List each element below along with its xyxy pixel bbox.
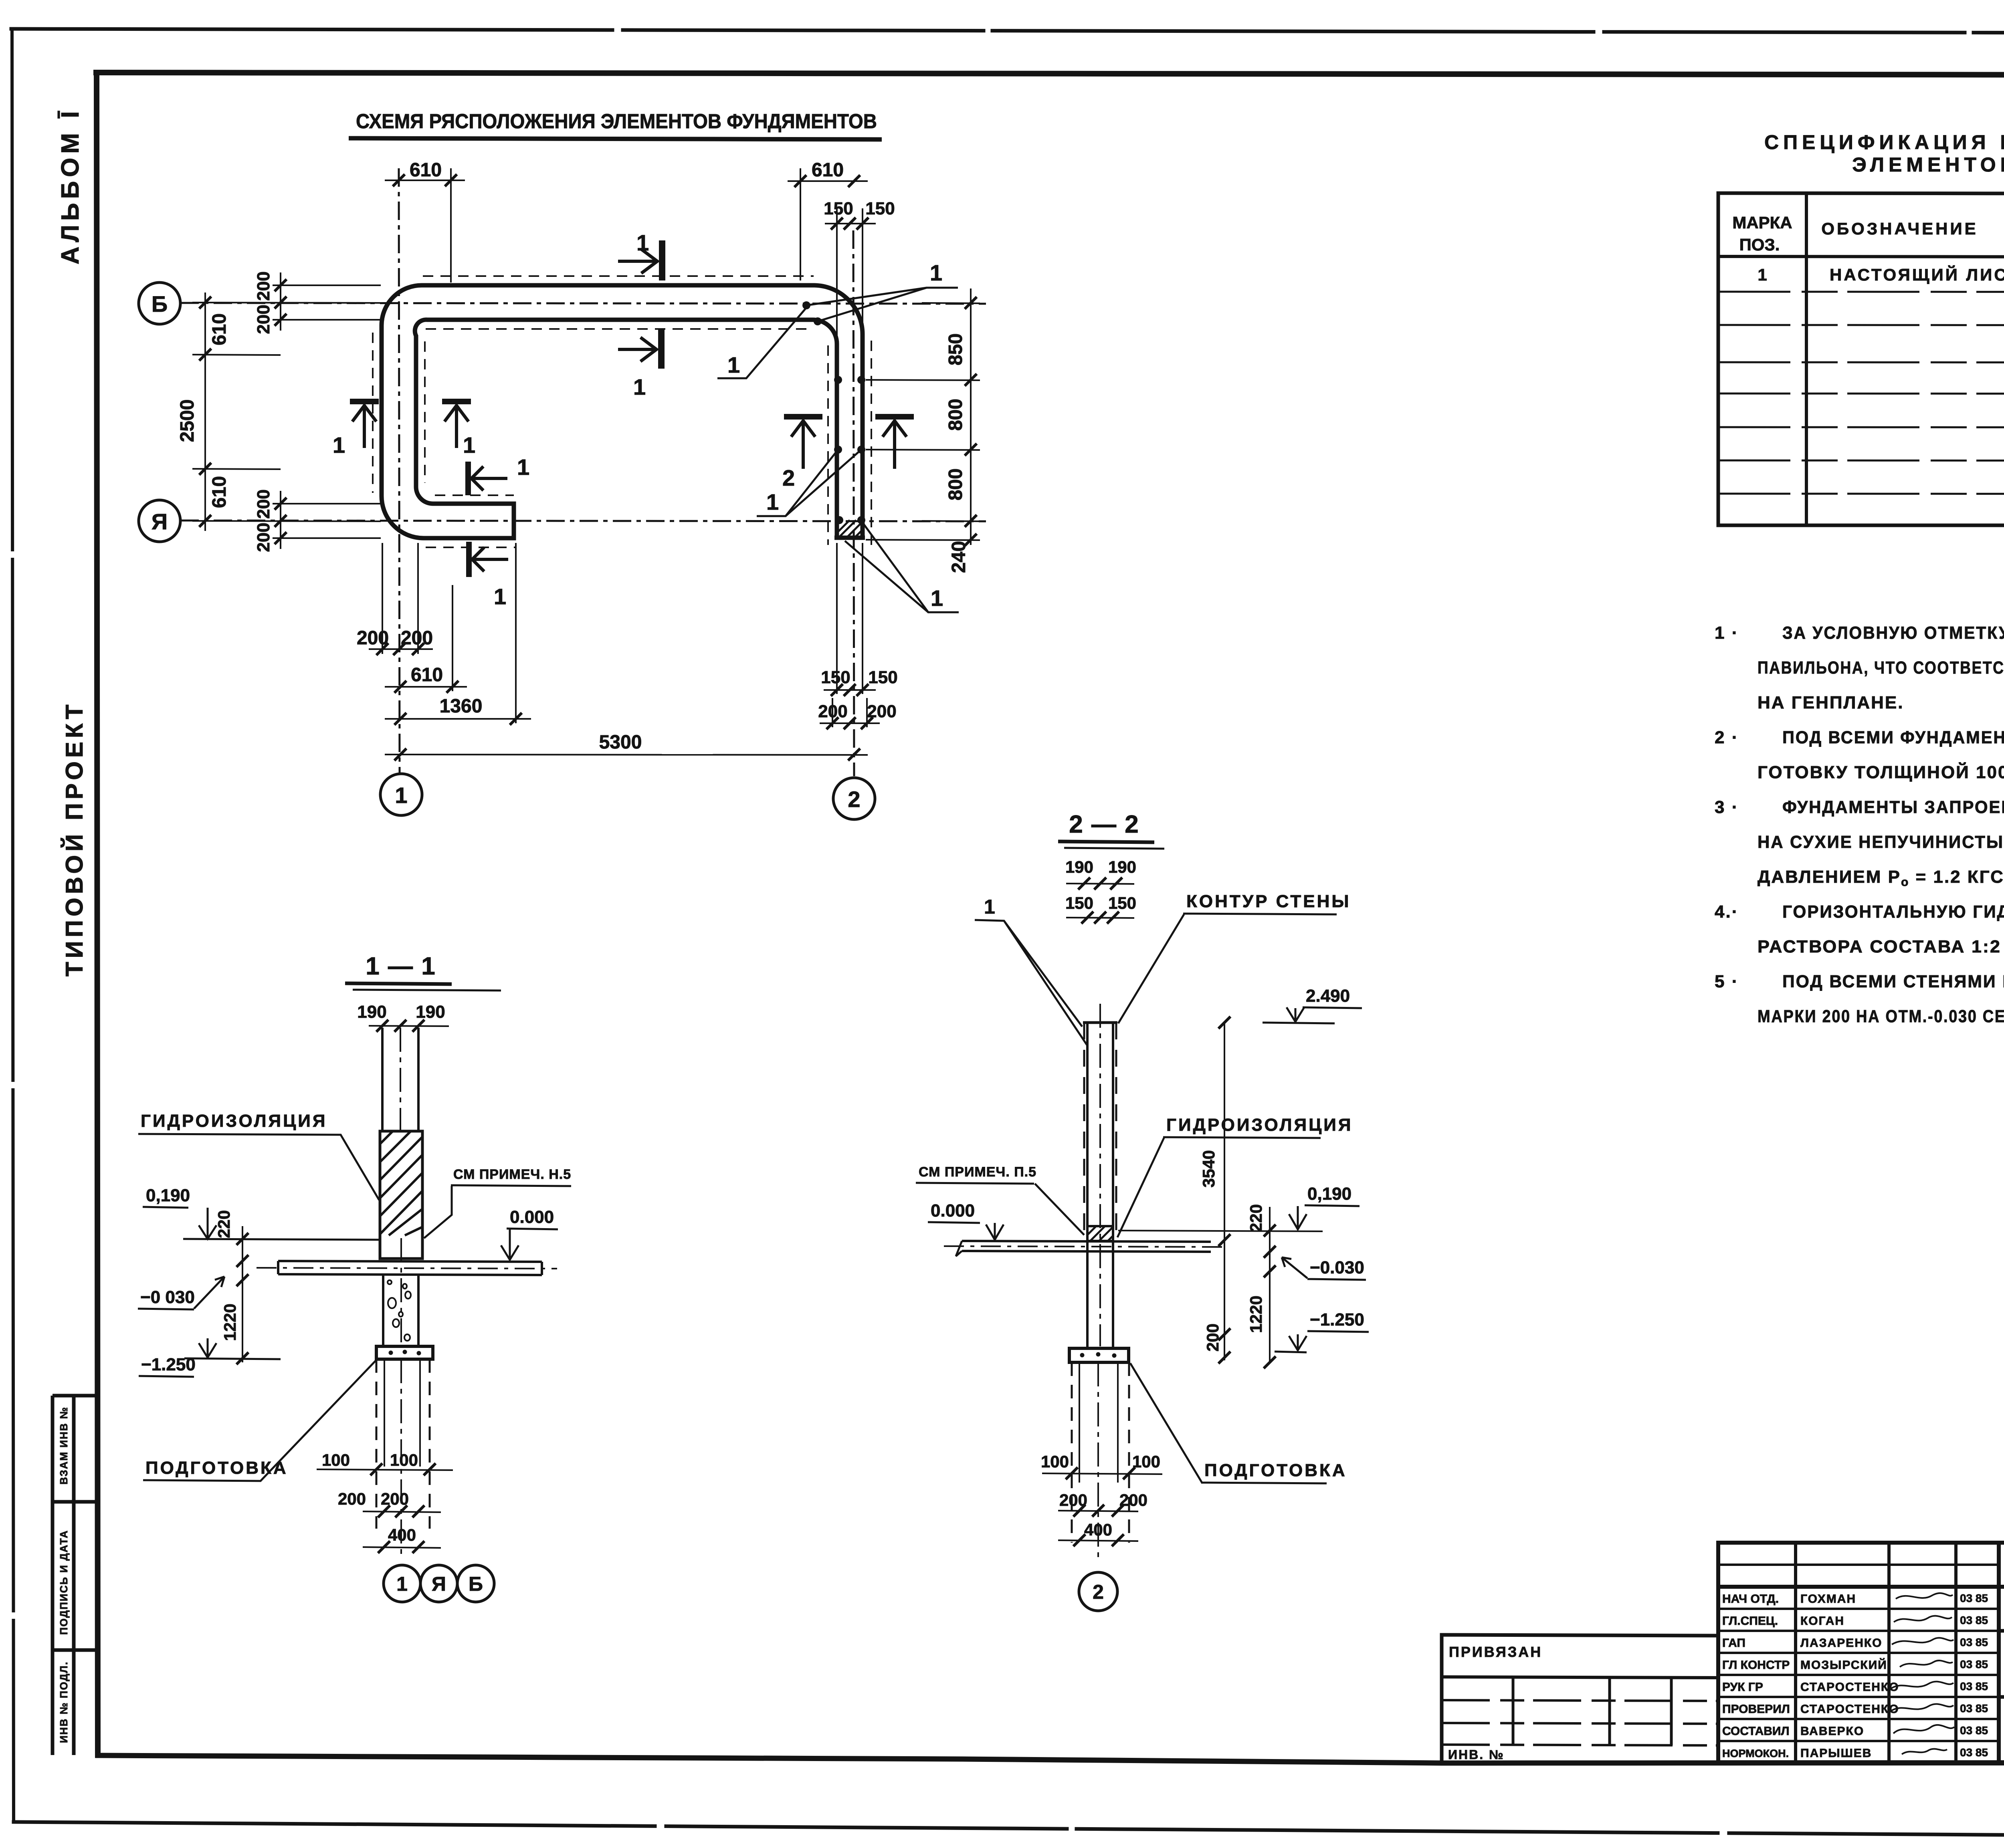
prep layer below footing sec2 <box>1072 1362 1129 1563</box>
svg-text:1: 1 <box>396 1573 408 1595</box>
svg-text:200: 200 <box>401 627 433 649</box>
svg-text:190: 190 <box>1065 857 1093 876</box>
svg-text:800: 800 <box>945 399 966 431</box>
svg-text:НАСТОЯЩИЙ ЛИСТ: НАСТОЯЩИЙ ЛИСТ <box>1830 265 2004 284</box>
svg-text:ПОД ВСЕМИ ФУНДАМЕНТЯМИ ВЫПОЛНИ: ПОД ВСЕМИ ФУНДАМЕНТЯМИ ВЫПОЛНИТЬ ЩЕБЕНОЧ… <box>1782 728 2004 747</box>
svg-text:2: 2 <box>782 465 795 490</box>
svg-text:1 — 1: 1 — 1 <box>366 952 436 980</box>
outer border top <box>11 29 2004 34</box>
svg-text:190: 190 <box>416 1002 445 1022</box>
footing slab <box>376 1346 433 1359</box>
svg-text:1: 1 <box>1758 265 1767 284</box>
svg-text:3540: 3540 <box>1199 1150 1218 1187</box>
svg-text:200: 200 <box>254 489 273 518</box>
svg-text:1: 1 <box>984 896 995 918</box>
svg-text:ГЛ КОНСТР: ГЛ КОНСТР <box>1722 1658 1790 1672</box>
section mark 1-1 top second <box>618 329 661 369</box>
svg-text:АЛЬБОМ Ī: АЛЬБОМ Ī <box>57 107 84 264</box>
dim 150x150 top-right <box>825 208 876 341</box>
svg-text:2 ·: 2 · <box>1715 728 1739 747</box>
svg-text:ГЛ.СПЕЦ.: ГЛ.СПЕЦ. <box>1722 1614 1778 1628</box>
svg-text:200: 200 <box>818 702 847 721</box>
dim 190/190 top <box>369 1020 449 1032</box>
right wall bottom cap <box>834 536 865 540</box>
svg-text:200: 200 <box>254 271 273 301</box>
svg-text:1: 1 <box>517 454 529 480</box>
svg-text:ПАРЫШЕВ: ПАРЫШЕВ <box>1800 1747 1872 1760</box>
axis line 1 <box>399 168 400 773</box>
bottom 200/200 under axis1 <box>369 543 433 654</box>
svg-text:610: 610 <box>812 159 844 181</box>
bottom 610 <box>385 585 467 691</box>
footing slab sec2 <box>1069 1348 1129 1362</box>
wall top cap <box>1083 1021 1117 1024</box>
left vertical chain 610/2500/610 <box>192 293 381 531</box>
svg-text:150: 150 <box>1108 894 1136 912</box>
svg-text:610: 610 <box>411 664 443 686</box>
axis circle 2 <box>833 778 875 819</box>
svg-text:03 85: 03 85 <box>1960 1702 1988 1715</box>
axis circle B <box>139 282 180 324</box>
plan dimensions <box>192 168 980 761</box>
svg-text:ИНВ. №: ИНВ. № <box>1448 1747 1505 1762</box>
svg-text:ЗА УСЛОВНУЮ ОТМЕТКУ 0,000 ПРИН: ЗА УСЛОВНУЮ ОТМЕТКУ 0,000 ПРИНЯТ УРОВЕНЬ… <box>1782 623 2004 643</box>
section mark 1-1 bottom wall b <box>469 542 508 577</box>
svg-text:ПОДПИСЬ И ДАТА: ПОДПИСЬ И ДАТА <box>58 1530 70 1635</box>
svg-text:ПОД ВСЕМИ СТЕНЯМИ ВЫПОЛНИТЬ ЦО: ПОД ВСЕМИ СТЕНЯМИ ВЫПОЛНИТЬ ЦОКОЛЬ ИЗ БЕ… <box>1782 972 2004 991</box>
main frame left <box>97 73 98 1755</box>
svg-text:СТАРОСТЕНКО: СТАРОСТЕНКО <box>1800 1681 1899 1694</box>
right chain 850/800/800/240 <box>866 288 980 545</box>
svg-text:1: 1 <box>930 260 942 285</box>
svg-text:СМ ПРИМЕЧ. П.5: СМ ПРИМЕЧ. П.5 <box>919 1164 1036 1180</box>
svg-text:200: 200 <box>867 702 896 721</box>
svg-text:03 85: 03 85 <box>1960 1724 1988 1737</box>
svg-text:800: 800 <box>945 468 966 500</box>
outer border left <box>12 29 14 1822</box>
leader to top-right rebar dots <box>806 288 958 321</box>
svg-text:1: 1 <box>463 432 475 458</box>
svg-text:200: 200 <box>1203 1323 1222 1352</box>
svg-text:03 85: 03 85 <box>1960 1746 1988 1759</box>
svg-text:КОГАН: КОГАН <box>1800 1614 1844 1628</box>
axis line Ya <box>180 521 986 521</box>
svg-text:ГОХМАН: ГОХМАН <box>1800 1592 1856 1606</box>
svg-text:ГИДРОИЗОЛЯЦИЯ: ГИДРОИЗОЛЯЦИЯ <box>141 1111 327 1131</box>
axis circles 1 Ya B <box>384 1565 494 1602</box>
svg-text:ВЗАМ ИНВ №: ВЗАМ ИНВ № <box>58 1406 70 1485</box>
svg-text:03 85: 03 85 <box>1960 1614 1988 1626</box>
svg-text:2: 2 <box>848 787 860 812</box>
svg-text:100: 100 <box>390 1451 418 1469</box>
svg-text:ГИДРОИЗОЛЯЦИЯ: ГИДРОИЗОЛЯЦИЯ <box>1166 1115 1353 1135</box>
svg-text:−1.250: −1.250 <box>1310 1310 1364 1330</box>
svg-text:1: 1 <box>395 783 407 808</box>
waterproofing small hatch at floor <box>1087 1226 1113 1241</box>
svg-text:150: 150 <box>824 199 853 218</box>
svg-text:200: 200 <box>254 523 273 552</box>
svg-text:200: 200 <box>381 1489 409 1508</box>
svg-text:СТАРОСТЕНКО: СТАРОСТЕНКО <box>1800 1703 1899 1716</box>
svg-text:ПАВИЛЬОНА, ЧТО СООТВЕТСТВУЕТ А: ПАВИЛЬОНА, ЧТО СООТВЕТСТВУЕТ АБСОЛЮТНОЙ … <box>1758 657 2004 678</box>
section mark 1-1 left wall a <box>350 401 379 448</box>
svg-text:03 85: 03 85 <box>1960 1658 1988 1670</box>
svg-text:СХЕМЯ РЯСПОЛОЖЕНИЯ ЭЛЕМЕНТОВ Ф: СХЕМЯ РЯСПОЛОЖЕНИЯ ЭЛЕМЕНТОВ ФУНДЯМЕНТОВ <box>356 110 877 133</box>
outer border bottom <box>14 1822 2004 1838</box>
signature rows names <box>1800 1592 1899 1760</box>
svg-text:СМ ПРИМЕЧ. Н.5: СМ ПРИМЕЧ. Н.5 <box>453 1167 571 1182</box>
svg-text:ПРИВЯЗАН: ПРИВЯЗАН <box>1449 1644 1542 1660</box>
floor slab <box>257 1261 557 1275</box>
svg-text:1: 1 <box>931 585 943 611</box>
svg-text:400: 400 <box>1084 1520 1112 1539</box>
axis circle 2 below <box>1079 1572 1117 1611</box>
svg-text:РАСТВОРА СОСТАВА 1:2 ТОЛЩИНОЙ: РАСТВОРА СОСТАВА 1:2 ТОЛЩИНОЙ 30 ММ. <box>1758 936 2004 956</box>
bottom 1360 <box>385 543 531 723</box>
waterproofing hatched block <box>380 1131 422 1259</box>
svg-text:190: 190 <box>357 1002 386 1022</box>
svg-text:5300: 5300 <box>599 732 642 753</box>
right wall hatched base <box>837 520 863 538</box>
bottom right 200/200 <box>820 698 880 727</box>
axis circle 1 <box>380 774 422 815</box>
svg-text:0,190: 0,190 <box>146 1186 190 1205</box>
svg-text:ГАП: ГАП <box>1722 1636 1745 1650</box>
svg-text:ИНВ № ПОДЛ.: ИНВ № ПОДЛ. <box>58 1661 70 1743</box>
svg-text:ФУНДАМЕНТЫ ЗАПРОЕКТИРОВАНЫ ИЗ: ФУНДАМЕНТЫ ЗАПРОЕКТИРОВАНЫ ИЗ РАСЧЕТА ОП… <box>1782 797 2004 817</box>
svg-text:5 ·: 5 · <box>1715 972 1739 991</box>
svg-text:0,190: 0,190 <box>1307 1184 1351 1204</box>
prep layer below footing <box>376 1359 430 1555</box>
svg-text:0.000: 0.000 <box>931 1201 975 1221</box>
svg-text:МОЗЫРСКИЙ: МОЗЫРСКИЙ <box>1800 1658 1887 1672</box>
spec table grid <box>1718 193 2004 525</box>
svg-text:РУК ГР: РУК ГР <box>1722 1681 1763 1694</box>
svg-text:ГОТОВКУ ТОЛЩИНОЙ 100 ММ.: ГОТОВКУ ТОЛЩИНОЙ 100 ММ. <box>1758 762 2004 782</box>
left 200/200 at B <box>273 272 381 331</box>
svg-text:1220: 1220 <box>1246 1295 1265 1333</box>
svg-text:150: 150 <box>1065 894 1093 912</box>
svg-text:200: 200 <box>254 305 273 334</box>
svg-text:2.490: 2.490 <box>1306 986 1350 1006</box>
svg-text:610: 610 <box>209 313 230 345</box>
svg-text:1: 1 <box>766 489 779 514</box>
svg-text:ТИПОВОЙ ПРОЕКТ: ТИПОВОЙ ПРОЕКТ <box>61 701 88 976</box>
svg-text:2 — 2: 2 — 2 <box>1069 811 1139 838</box>
svg-text:190: 190 <box>1108 857 1136 876</box>
svg-text:Я: Я <box>152 509 168 534</box>
svg-text:03 85: 03 85 <box>1960 1636 1988 1648</box>
main frame bottom <box>98 1755 2004 1763</box>
bottom 5300 <box>385 755 868 755</box>
bottom right 150/150 <box>824 543 876 694</box>
svg-text:МАРКИ 200 НА ОТМ.-0.030 СЕЧЕНИ: МАРКИ 200 НА ОТМ.-0.030 СЕЧЕНИЕМ 320×220… <box>1758 1007 2004 1026</box>
svg-text:ПРОВЕРИЛ: ПРОВЕРИЛ <box>1722 1703 1790 1716</box>
signature dates <box>1960 1592 1988 1759</box>
section mark 2-2 right <box>875 417 914 469</box>
svg-text:СОСТАВИЛ: СОСТАВИЛ <box>1722 1725 1790 1738</box>
svg-text:ВАВЕРКО: ВАВЕРКО <box>1800 1725 1864 1738</box>
wall above ground lines <box>382 1028 418 1134</box>
svg-text:ЭЛЕМЕНТОВ ФУНДАМЕНТОВ: ЭЛЕМЕНТОВ ФУНДАМЕНТОВ <box>1852 153 2004 176</box>
svg-text:1: 1 <box>494 584 506 609</box>
svg-text:150: 150 <box>868 668 897 687</box>
privyazan table <box>1442 1635 1718 1763</box>
section mark 1-1 left wall b <box>442 401 471 448</box>
svg-text:НОРМОКОН.: НОРМОКОН. <box>1722 1747 1789 1759</box>
signature rows roles <box>1722 1592 1790 1759</box>
svg-text:ОБОЗНАЧЕНИЕ: ОБОЗНАЧЕНИЕ <box>1821 219 1978 238</box>
svg-text:400: 400 <box>388 1525 416 1544</box>
svg-text:850: 850 <box>945 333 966 365</box>
svg-text:1220: 1220 <box>220 1303 239 1341</box>
svg-text:100: 100 <box>322 1451 350 1469</box>
svg-text:−0.030: −0.030 <box>1310 1258 1364 1277</box>
svg-text:220: 220 <box>214 1210 233 1238</box>
spec header texts <box>1732 204 2004 254</box>
svg-text:−0 030: −0 030 <box>140 1287 195 1307</box>
svg-text:610: 610 <box>410 159 442 181</box>
svg-text:СПЕЦИФИКАЦИЯ К СХЕМЕ РАСПОЛОЖЕ: СПЕЦИФИКАЦИЯ К СХЕМЕ РАСПОЛОЖЕНИЯ <box>1764 131 2004 153</box>
svg-text:4.·: 4.· <box>1715 902 1739 922</box>
svg-text:03 85: 03 85 <box>1960 1592 1988 1604</box>
left border stamp strip <box>53 1396 97 1755</box>
svg-text:ГОРИЗОНТАЛЬНУЮ ГИДРОИЗОЛЯЦИЮ В: ГОРИЗОНТАЛЬНУЮ ГИДРОИЗОЛЯЦИЮ ВЫПОЛНИТЬ И… <box>1782 902 2004 922</box>
rubble texture <box>388 1280 411 1341</box>
spec row 1 <box>1758 263 2004 284</box>
svg-text:150: 150 <box>865 199 895 218</box>
main frame top <box>96 73 2004 75</box>
leader to middle rebar dots <box>757 450 861 516</box>
foundation wall outline <box>382 285 865 538</box>
leader to bottom rebar dots <box>845 521 959 612</box>
plan dim texts <box>177 159 970 753</box>
floor slab sec2 <box>944 1241 1226 1256</box>
svg-text:3 ·: 3 · <box>1715 797 1739 817</box>
svg-text:1360: 1360 <box>440 696 483 717</box>
axis line 2 <box>853 230 854 776</box>
dim 610 top-left <box>385 168 465 282</box>
svg-text:1: 1 <box>727 352 740 377</box>
svg-text:КОНТУР СТЕНЫ: КОНТУР СТЕНЫ <box>1186 892 1351 911</box>
svg-text:ПОЗ.: ПОЗ. <box>1739 235 1780 254</box>
svg-text:НА ГЕНПЛАНЕ.: НА ГЕНПЛАНЕ. <box>1758 693 1904 712</box>
dim 610 top-right <box>788 168 868 280</box>
svg-text:150: 150 <box>821 668 850 687</box>
svg-text:ЛАЗАРЕНКО: ЛАЗАРЕНКО <box>1800 1636 1883 1650</box>
svg-text:НА СУХИЕ НЕПУЧИНИСТЫЕ ГРУНТЫ С: НА СУХИЕ НЕПУЧИНИСТЫЕ ГРУНТЫ С УСЛОВНЫМ … <box>1758 832 2004 852</box>
section mark 1-1 top first <box>618 240 662 280</box>
svg-text:200: 200 <box>338 1489 366 1508</box>
svg-text:2: 2 <box>1093 1581 1104 1603</box>
svg-text:1: 1 <box>333 432 345 458</box>
svg-text:ПОДГОТОВКА: ПОДГОТОВКА <box>1204 1461 1347 1480</box>
svg-text:1 ·: 1 · <box>1715 623 1739 643</box>
wall contour dashed + foundation lines <box>1084 1004 1116 1348</box>
svg-text:МАРКА: МАРКА <box>1732 213 1792 232</box>
svg-text:200: 200 <box>357 627 389 649</box>
section mark 1-1 bottom wall a <box>468 462 507 495</box>
signature squiggles <box>1891 1593 1954 1754</box>
svg-text:ДАВЛЕНИЕМ Ро = 1.2 КГС/СМ2: ДАВЛЕНИЕМ Ро = 1.2 КГС/СМ2 <box>1758 866 2004 889</box>
axis circle Ya <box>139 500 180 542</box>
foundation wall below floor <box>383 1238 418 1346</box>
section mark 2-2 left <box>784 417 822 469</box>
svg-text:1: 1 <box>633 374 646 399</box>
svg-text:610: 610 <box>209 476 230 508</box>
svg-text:Б: Б <box>152 291 168 317</box>
svg-text:03 85: 03 85 <box>1960 1680 1988 1693</box>
axis line B <box>180 303 986 304</box>
svg-text:Б: Б <box>469 1573 483 1595</box>
left 200/200 at Ya <box>273 491 381 549</box>
svg-text:240: 240 <box>948 541 970 573</box>
svg-text:100: 100 <box>1132 1452 1160 1471</box>
svg-text:2500: 2500 <box>177 399 198 442</box>
svg-text:220: 220 <box>1246 1204 1265 1232</box>
title block grid <box>1718 1543 2004 1762</box>
wall outer contour <box>382 285 863 538</box>
svg-text:0.000: 0.000 <box>510 1207 554 1227</box>
svg-text:Я: Я <box>432 1573 446 1595</box>
svg-text:НАЧ ОТД.: НАЧ ОТД. <box>1722 1592 1779 1606</box>
rebar dots pos.1 <box>802 301 865 524</box>
svg-text:1: 1 <box>636 230 649 255</box>
leader label 1 left of curve <box>717 309 806 378</box>
svg-text:100: 100 <box>1041 1452 1069 1471</box>
prep-layer dashed offsets <box>373 276 871 547</box>
